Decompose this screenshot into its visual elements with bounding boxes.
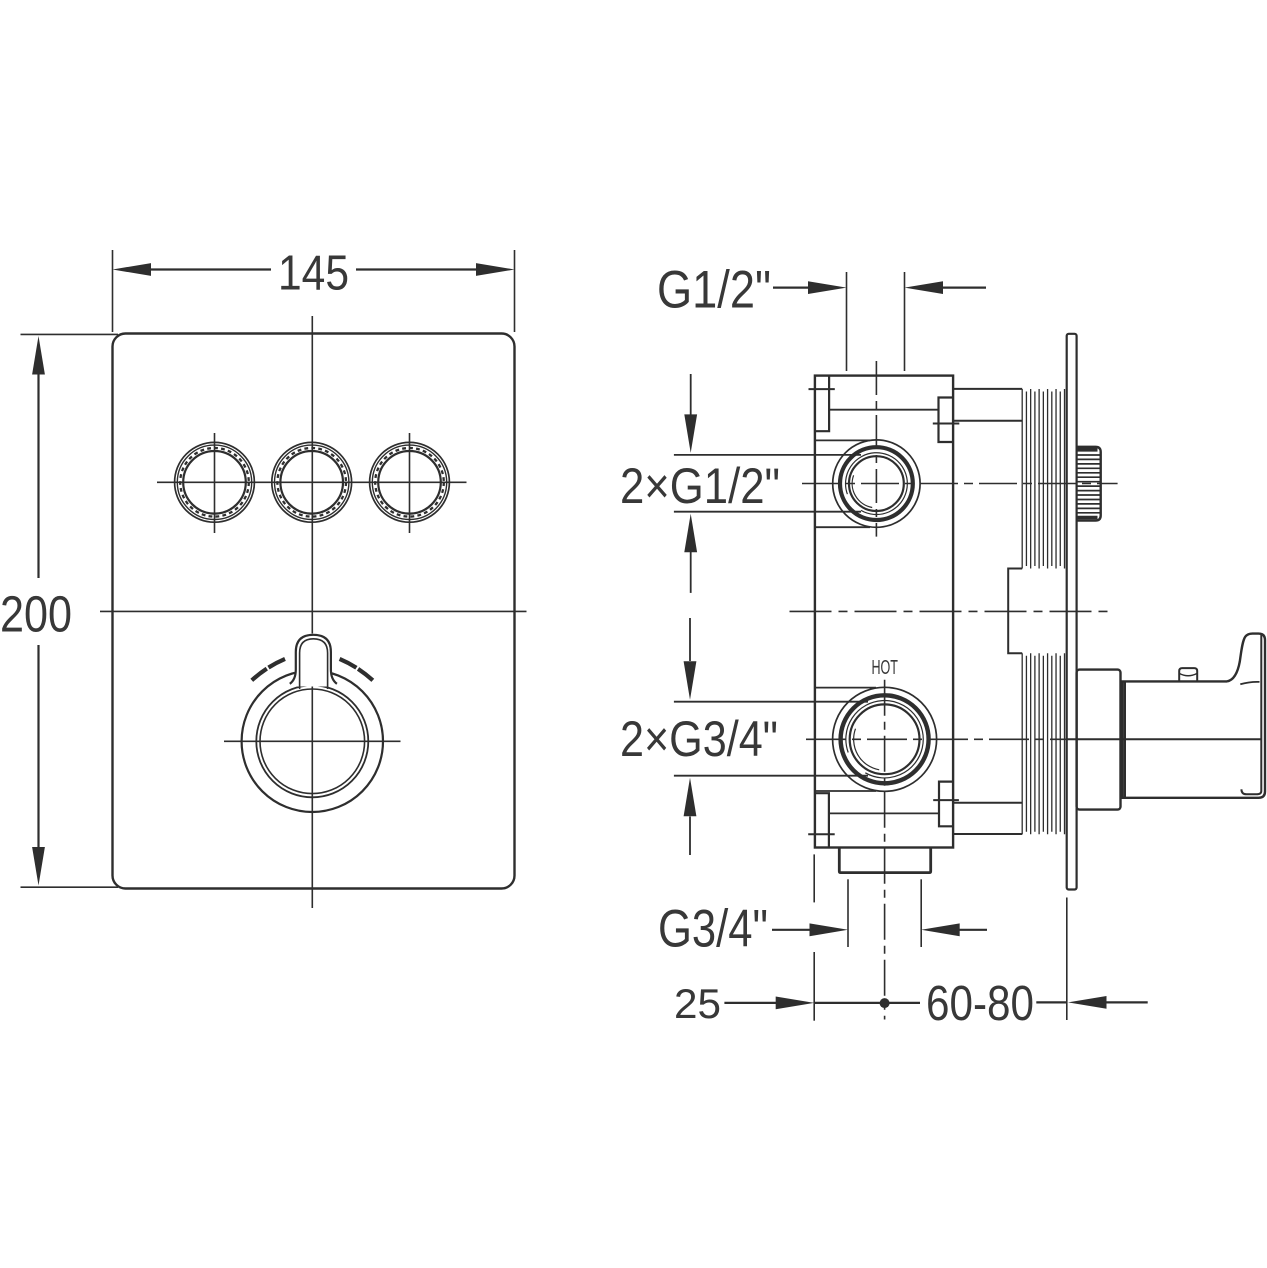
dimension 200 (left) (0, 334, 118, 887)
threaded sleeve lower band (1022, 653, 1064, 834)
upper port horizontal centerline (802, 483, 1118, 485)
lower port outer tangent lines (815, 687, 876, 689)
threaded sleeve upper band (1022, 389, 1064, 569)
bottom connection pipe (953, 803, 1022, 834)
rotation arrow dash left (252, 659, 285, 680)
handle escutcheon (1077, 670, 1121, 810)
left tick bottom (808, 833, 835, 835)
knob tab outer outline (290, 635, 337, 684)
svg-text:60-80: 60-80 (926, 977, 1034, 1031)
set screw bump on hub (1179, 668, 1197, 681)
2xG1/2 dimension leaders (620, 374, 861, 593)
dimension 145 (top) (113, 247, 515, 333)
main horizontal centerline (mid height) (790, 610, 1111, 612)
plate vertical centerline (311, 316, 313, 908)
bottom outlet stub (839, 848, 930, 873)
knob horizontal crosshair (224, 740, 401, 742)
upper port (2xG1/2) (802, 361, 1118, 537)
button 2 (272, 442, 352, 522)
knob tab inner outline (300, 639, 328, 689)
svg-text:25: 25 (674, 980, 721, 1027)
body top-right block (933, 398, 960, 443)
lower port vertical centerline (884, 680, 886, 1020)
svg-text:HOT: HOT (871, 657, 898, 679)
top connection pipe (953, 389, 1022, 421)
front plate (113, 334, 515, 889)
25 dimension (674, 854, 920, 1027)
valve body (815, 376, 953, 848)
button 1 (175, 433, 255, 533)
body bottom-right block (933, 782, 959, 827)
2xG3/4 dimension leaders (620, 618, 868, 855)
body top-left inset lug (815, 376, 829, 432)
G1/2 top dimension (657, 261, 986, 372)
internal line bottom (829, 812, 939, 814)
60-80 dimension (926, 898, 1148, 1032)
svg-text:145: 145 (278, 247, 349, 301)
knurled adjuster knob (1077, 447, 1101, 521)
svg-text:2×G1/2": 2×G1/2" (620, 458, 780, 514)
svg-text:2×G3/4": 2×G3/4" (620, 711, 778, 767)
upper port vertical centerline (875, 361, 877, 537)
thermostat knob (224, 634, 401, 813)
central hub (1008, 569, 1022, 654)
svg-text:G3/4": G3/4" (658, 900, 768, 959)
button 3 (370, 433, 450, 533)
rotation arrow dash right (340, 659, 373, 680)
lower port (2xG3/4, HOT) (806, 657, 1261, 1020)
body bottom-left inset lug (815, 793, 829, 847)
handle hub (1122, 681, 1258, 797)
buttons horizontal centerline (157, 481, 467, 483)
left tick top (809, 388, 835, 390)
handle grip (1227, 634, 1265, 798)
lower port horizontal centerline (806, 738, 1066, 740)
wall plate (1067, 334, 1077, 890)
internal line top (829, 409, 938, 411)
plate horizontal mid centerline (100, 610, 527, 612)
G3/4 bottom dimension (658, 879, 987, 958)
knob tab white mask (295, 634, 332, 687)
svg-text:G1/2": G1/2" (657, 261, 771, 320)
svg-text:200: 200 (0, 586, 72, 643)
upper port outer tangent lines (815, 439, 870, 441)
